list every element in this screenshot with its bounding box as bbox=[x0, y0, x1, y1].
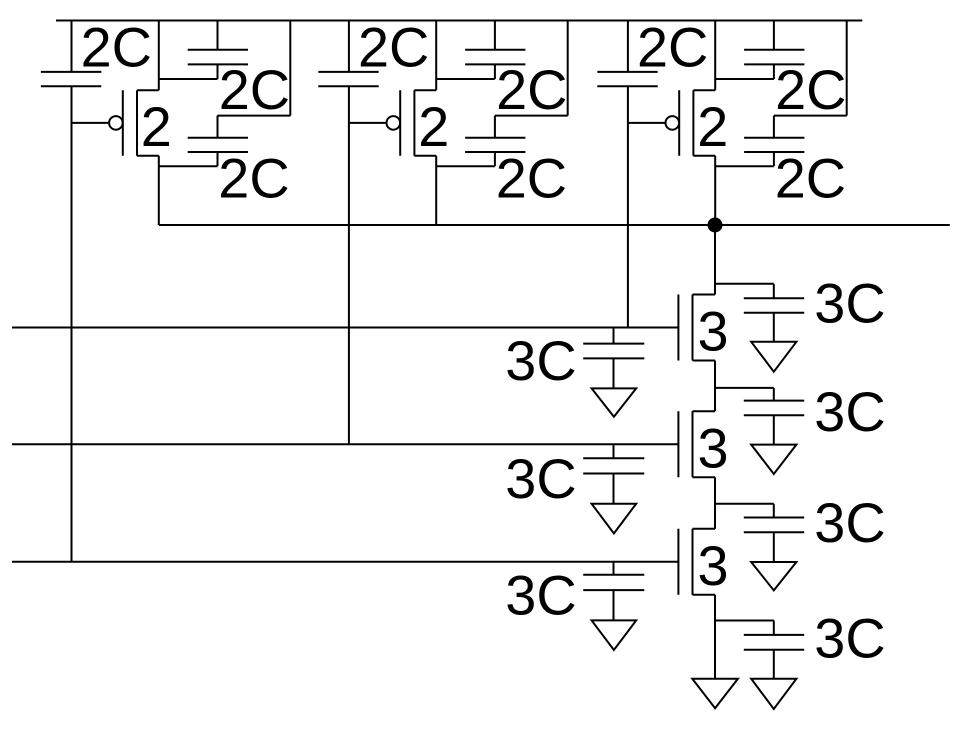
transistor Q P1 PMOS width 2 bbox=[72, 90, 159, 156]
svg-text:3: 3 bbox=[698, 416, 729, 479]
value label 2C (drain diffusion cap of P3) bbox=[775, 147, 846, 210]
capacitor 3C gate cap of N1 (input C) bbox=[583, 328, 644, 389]
value label 3C (output Y cap) bbox=[814, 272, 885, 335]
value label 2C (drain diffusion cap of P1) bbox=[218, 147, 289, 210]
svg-text:3C: 3C bbox=[814, 607, 885, 670]
svg-text:2C: 2C bbox=[218, 147, 289, 210]
svg-text:2C: 2C bbox=[219, 58, 290, 121]
capacitor 2C gate cap of P3 (input C) bbox=[597, 72, 657, 86]
svg-text:3C: 3C bbox=[814, 380, 885, 443]
value label 2C (gate cap of P3) bbox=[637, 16, 708, 79]
wire P2 source to VDD bbox=[435, 21, 437, 91]
wire P3 source to VDD bbox=[714, 21, 716, 91]
capacitor 3C diffusion cap at ground node bbox=[715, 621, 804, 679]
wire VDD rail bbox=[56, 20, 862, 22]
ground below 3C cap at node n1 bbox=[751, 445, 796, 474]
capacitor 2C source diffusion of P3 (upper) bbox=[715, 21, 804, 80]
svg-text:2C: 2C bbox=[637, 16, 708, 79]
svg-text:2: 2 bbox=[141, 95, 172, 158]
svg-text:3C: 3C bbox=[814, 272, 885, 335]
value label 3C (gate cap of N3) bbox=[505, 563, 576, 626]
transistor Q P2 PMOS width 2 bbox=[349, 90, 436, 156]
wire output node Y bbox=[159, 224, 950, 226]
value label 3C (ground node cap) bbox=[814, 607, 885, 670]
capacitor 3C diffusion cap at output Y bbox=[715, 284, 804, 342]
svg-text:2C: 2C bbox=[496, 58, 567, 121]
node Y junction dot bbox=[708, 218, 723, 233]
svg-text:2C: 2C bbox=[358, 16, 429, 79]
capacitor 2C gate cap of P1 (input A) bbox=[41, 72, 101, 86]
value label 2C (source diffusion cap of P1) bbox=[219, 58, 290, 121]
transistor Q N1 NMOS width 3 (input C) bbox=[678, 295, 715, 361]
capacitor 3C diffusion cap at node n1 bbox=[715, 388, 804, 445]
ground below gate cap of N3 bbox=[592, 620, 637, 650]
wire input A vertical to PMOS P1 gate bbox=[71, 21, 73, 562]
value label 3C (node n2 cap) bbox=[814, 491, 885, 554]
value label 2C (drain diffusion cap of P2) bbox=[496, 147, 567, 210]
capacitor 2C drain diffusion of P2 (lower) bbox=[436, 21, 568, 167]
svg-text:3C: 3C bbox=[814, 491, 885, 554]
value label 3 (width of N3) bbox=[698, 534, 729, 597]
wire N3 source to ground bbox=[714, 595, 716, 679]
wire P1 source to VDD bbox=[158, 21, 160, 91]
transistor Q P3 PMOS width 2 bbox=[628, 90, 715, 156]
capacitor 2C drain diffusion of P1 (lower) bbox=[159, 21, 290, 167]
capacitor 2C gate cap of P2 (input B) bbox=[318, 72, 378, 86]
wire P1 drain to output Y bbox=[158, 156, 160, 225]
capacitor 3C diffusion cap at node n2 bbox=[715, 504, 804, 562]
svg-text:2C: 2C bbox=[775, 58, 846, 121]
transistor Q N2 NMOS width 3 (input B) bbox=[678, 411, 715, 477]
value label 2C (gate cap of P1) bbox=[81, 16, 152, 79]
ground below gate cap of N2 bbox=[592, 504, 637, 534]
wire input B vertical to PMOS P2 gate bbox=[348, 21, 350, 445]
wire node n1 (N1 source to N2 drain) bbox=[714, 361, 716, 412]
capacitor 3C gate cap of N2 (input B) bbox=[583, 444, 644, 504]
wire input C horizontal line bbox=[12, 327, 678, 329]
ground below gate cap of N1 bbox=[592, 388, 637, 416]
svg-text:2C: 2C bbox=[775, 147, 846, 210]
svg-text:2: 2 bbox=[697, 95, 728, 158]
ground at N3 source bbox=[692, 679, 738, 708]
ground below 3C cap at node n2 bbox=[751, 562, 796, 590]
wire input B horizontal line bbox=[12, 443, 678, 445]
svg-text:3C: 3C bbox=[505, 329, 576, 392]
value label 2C (source diffusion cap of P3) bbox=[775, 58, 846, 121]
value label 3C (node n1 cap) bbox=[814, 380, 885, 443]
value label 2 (width of P3) bbox=[697, 95, 728, 158]
value label 2C (gate cap of P2) bbox=[358, 16, 429, 79]
capacitor 2C source diffusion of P1 (upper) bbox=[159, 21, 248, 80]
value label 3 (width of N2) bbox=[698, 416, 729, 479]
svg-text:3C: 3C bbox=[505, 447, 576, 510]
value label 2 (width of P2) bbox=[418, 95, 449, 158]
value label 2 (width of P1) bbox=[141, 95, 172, 158]
value label 3 (width of N1) bbox=[698, 300, 729, 363]
wire input A horizontal line bbox=[12, 561, 678, 563]
value label 3C (gate cap of N1) bbox=[505, 329, 576, 392]
svg-text:3C: 3C bbox=[505, 563, 576, 626]
capacitor 3C gate cap of N3 (input A) bbox=[583, 562, 644, 621]
svg-text:2C: 2C bbox=[496, 147, 567, 210]
wire P2 drain to output Y bbox=[435, 156, 437, 225]
svg-text:3: 3 bbox=[698, 534, 729, 597]
wire input C vertical to PMOS P3 gate bbox=[627, 21, 629, 328]
capacitor 2C drain diffusion of P3 (lower) bbox=[715, 21, 847, 167]
wire P3 drain to output Y bbox=[714, 156, 716, 225]
value label 2C (source diffusion cap of P2) bbox=[496, 58, 567, 121]
capacitor 2C source diffusion of P2 (upper) bbox=[436, 21, 525, 80]
ground below 3C cap at output Y bbox=[751, 342, 796, 372]
svg-text:2C: 2C bbox=[81, 16, 152, 79]
svg-text:3: 3 bbox=[698, 300, 729, 363]
ground below 3C cap at ground node bbox=[751, 679, 796, 709]
wire Y to N1 drain bbox=[714, 225, 716, 295]
wire node n2 (N2 source to N3 drain) bbox=[714, 477, 716, 529]
value label 3C (gate cap of N2) bbox=[505, 447, 576, 510]
svg-text:2: 2 bbox=[418, 95, 449, 158]
transistor Q N3 NMOS width 3 (input A) bbox=[678, 529, 715, 595]
